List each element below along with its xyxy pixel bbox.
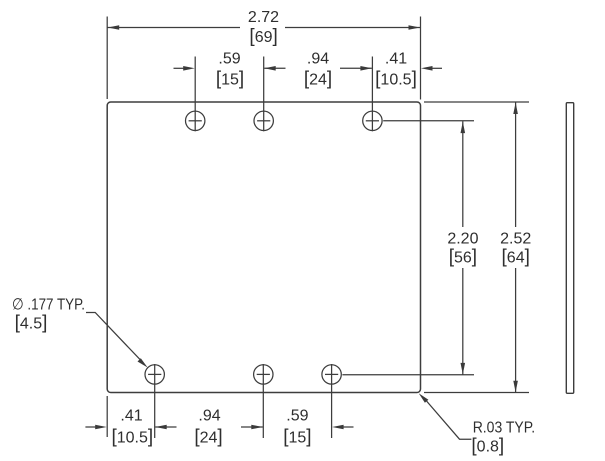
- side view plate edge: [566, 103, 573, 394]
- leader radius callout line: [419, 393, 472, 439]
- svg-text:[10.5]: [10.5]: [111, 427, 153, 448]
- dimension .41 top arrow (outside right): [421, 66, 442, 71]
- extension line left edge bottom: [106, 396, 108, 437]
- dimension .41 bottom text: [120, 408, 142, 425]
- dimension .41 top text: [385, 51, 407, 68]
- svg-text:[0.8]: [0.8]: [471, 436, 504, 457]
- hole H4 bottom-left: [145, 365, 164, 384]
- svg-text:2.72: 2.72: [248, 9, 279, 26]
- dimension 2.52 [64] vertical line: [513, 103, 518, 393]
- dimension [64] text: [502, 247, 530, 268]
- dimension .94 top text: [307, 51, 329, 68]
- extension line hole H2 vertical: [263, 57, 265, 132]
- svg-text:[24]: [24]: [194, 427, 222, 448]
- plate front view outline: [107, 102, 420, 393]
- dimension .59 bottom arrow (outside right): [332, 425, 353, 430]
- svg-text:[15]: [15]: [216, 69, 244, 90]
- dimension 2.20 [56] vertical line: [461, 121, 466, 374]
- hole H1 top-left: [186, 111, 205, 130]
- dimension .59 bottom text: [286, 408, 308, 425]
- hole H5 bottom-middle: [254, 365, 273, 384]
- svg-text:.59: .59: [286, 408, 308, 425]
- dimension 2.72 [69] horizontal: [107, 25, 420, 30]
- extension line hole H3 vertical: [371, 57, 373, 132]
- extension line hole H1 vertical: [194, 57, 196, 132]
- dimension .59 top text: [218, 51, 240, 68]
- extension line hole H4 vertical: [154, 364, 156, 438]
- svg-text:[4.5]: [4.5]: [15, 313, 48, 334]
- dimension [56] text: [449, 247, 477, 268]
- dimension .41 bottom arrow (outside left): [85, 425, 106, 430]
- hole H6 bottom-right: [322, 365, 341, 384]
- dimension [24] bottom text: [194, 427, 222, 448]
- svg-text:2.20: 2.20: [447, 230, 478, 247]
- extension line plate bottom horizontal: [424, 392, 529, 394]
- label diameter .177 TYP text: [12, 297, 85, 314]
- svg-text:[69]: [69]: [249, 26, 277, 47]
- svg-text:2.52: 2.52: [500, 230, 531, 247]
- label R [0.8] text: [471, 436, 504, 457]
- dimension .59 top arrow (outside left): [174, 66, 195, 71]
- leader diameter callout line: [86, 313, 148, 368]
- svg-text:.59: .59: [218, 51, 240, 68]
- svg-text:∅ .177 TYP.: ∅ .177 TYP.: [12, 297, 85, 314]
- svg-text:R.03 TYP.: R.03 TYP.: [473, 420, 536, 437]
- svg-text:[10.5]: [10.5]: [375, 69, 417, 90]
- extension line hole H5 vertical: [262, 364, 264, 438]
- svg-text:.94: .94: [307, 51, 329, 68]
- dimension [24] top text: [304, 69, 332, 90]
- svg-text:.41: .41: [385, 51, 407, 68]
- extension line right edge top: [420, 17, 422, 100]
- svg-text:.41: .41: [120, 408, 142, 425]
- hole H3 top-right: [363, 111, 382, 130]
- extension line hole H6 horizontal: [342, 374, 474, 376]
- svg-text:[56]: [56]: [449, 247, 477, 268]
- extension line plate top horizontal: [424, 101, 529, 103]
- extension line left edge top: [106, 17, 108, 100]
- dimension 2.72 text: [248, 9, 279, 26]
- dimension .94 bottom line-arrows: [155, 425, 263, 430]
- dimension 2.20 text: [447, 230, 478, 247]
- dimension [15] top text: [216, 69, 244, 90]
- dimension 2.52 text: [500, 230, 531, 247]
- dimension .94 bottom text: [198, 408, 220, 425]
- dimension [10.5] top text: [375, 69, 417, 90]
- extension line hole H3 horizontal: [383, 120, 474, 122]
- label R.03 TYP text: [473, 420, 536, 437]
- dimension [15] bottom text: [283, 427, 311, 448]
- dimension [69] text: [249, 26, 277, 47]
- dimension .94 top line-arrows: [264, 66, 372, 71]
- svg-text:[64]: [64]: [502, 247, 530, 268]
- extension line hole H6 vertical: [331, 364, 333, 438]
- hole H2 top-middle: [254, 111, 273, 130]
- svg-text:[15]: [15]: [283, 427, 311, 448]
- dimension [10.5] bottom text: [111, 427, 153, 448]
- label diameter [4.5] text: [15, 313, 48, 334]
- svg-text:[24]: [24]: [304, 69, 332, 90]
- svg-text:.94: .94: [198, 408, 220, 425]
